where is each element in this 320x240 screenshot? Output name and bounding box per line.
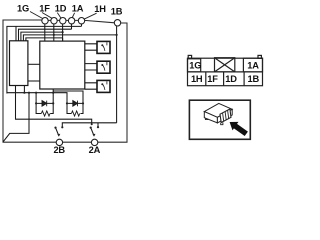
- relay connector foot: [221, 122, 223, 124]
- wire 1G drop into coil box: [44, 23, 46, 42]
- wire 1A drop to bus L2: [71, 23, 73, 29]
- svg-text:2B: 2B: [53, 145, 65, 155]
- bus wire from 1H down left side to node W1: [7, 26, 82, 93]
- label leader 1D: [57, 13, 61, 18]
- wires coil L2 to contact box S3: [85, 83, 97, 89]
- wire riser diode loop1: [35, 93, 37, 104]
- diode D1 loop wires: [36, 103, 53, 113]
- wire 1B drop down right side: [116, 26, 118, 123]
- svg-text:1H: 1H: [191, 74, 203, 84]
- switch SW1 lever arrowhead: [57, 134, 60, 137]
- terminal 1A: [68, 18, 74, 24]
- svg-text:1F: 1F: [39, 4, 50, 14]
- coil box L2: [40, 41, 85, 89]
- svg-text:1D: 1D: [55, 4, 67, 14]
- cell 1G: [188, 59, 201, 72]
- connector tab right: [258, 55, 261, 58]
- wire 1F drop into coil box: [53, 23, 55, 42]
- label leader 1F: [42, 13, 52, 19]
- relay illustration frame: [189, 100, 250, 139]
- terminal circles: [42, 18, 121, 146]
- relay connector block: [220, 109, 231, 123]
- wire coil L1 bottom left drop to line A: [16, 86, 92, 125]
- relay connector pins hatch: [223, 110, 229, 121]
- contact box S3: [97, 80, 110, 92]
- svg-text:1D: 1D: [225, 74, 237, 84]
- contact S3 symbol: [103, 81, 107, 90]
- connector row divider: [188, 71, 263, 73]
- svg-text:1G: 1G: [17, 4, 29, 14]
- pointer arrow: [230, 122, 248, 136]
- wire W1 horizontal: [7, 93, 67, 104]
- resistor R2 zigzag: [71, 111, 79, 116]
- wire between coil boxes lower: [28, 80, 40, 82]
- svg-text:1H: 1H: [94, 4, 106, 14]
- coil box L1: [10, 41, 28, 86]
- bus wire from 1F and 1B into coil L1: [23, 35, 116, 41]
- contact box S1: [97, 41, 110, 53]
- bus wire into coil L1 and coil L2: [26, 38, 63, 41]
- cell 1A: [243, 58, 262, 72]
- terminal 2B: [56, 139, 62, 145]
- terminal 1B: [114, 20, 120, 26]
- label leader 1H: [84, 13, 97, 19]
- terminal 1H: [78, 18, 84, 24]
- relay body right face: [217, 109, 232, 123]
- terminal 1D: [60, 18, 66, 24]
- wire coil L1 bottom right drop to W1: [23, 86, 25, 93]
- wire V52 from coil L2 bottom: [52, 89, 54, 103]
- relay body front face: [204, 112, 217, 123]
- frame top edge through terminals: [42, 20, 115, 22]
- connector cell labels: [189, 60, 259, 84]
- keyed cell X: [215, 58, 235, 72]
- relay foot front left: [205, 118, 207, 120]
- bottom row dividers: [206, 72, 244, 86]
- contact box S2: [97, 61, 110, 73]
- svg-text:1A: 1A: [247, 60, 259, 70]
- wire between coil boxes upper: [28, 63, 40, 65]
- svg-text:1B: 1B: [248, 74, 260, 84]
- svg-text:2A: 2A: [89, 145, 101, 155]
- diode D2: [73, 101, 78, 107]
- label leader 1A: [72, 13, 74, 18]
- bus wire from 1D into coil L1: [21, 32, 63, 41]
- wire 1H drop to bus L1: [81, 23, 83, 26]
- svg-text:1F: 1F: [207, 74, 218, 84]
- switch SW1 lever: [56, 128, 59, 136]
- resistor R1 zigzag: [41, 111, 50, 116]
- connector outline: [188, 58, 263, 85]
- relay body top face: [204, 103, 232, 117]
- diode D2 loop wires: [67, 103, 83, 113]
- terminal 1G: [42, 18, 48, 24]
- labels of top terminals: [17, 4, 123, 155]
- diode D1: [42, 101, 47, 107]
- terminal 1F: [51, 18, 57, 24]
- wire 1D drop to bus L3: [62, 23, 64, 42]
- svg-text:1G: 1G: [189, 60, 201, 70]
- switch SW2 lever arrowhead: [93, 134, 96, 137]
- switch SW2 lever: [91, 128, 94, 136]
- wire line B to switches: [62, 123, 116, 127]
- connector tab left: [188, 55, 191, 58]
- wires coil L2 to contact box S2: [85, 64, 97, 70]
- contact S1 symbol: [103, 42, 107, 51]
- svg-text:1A: 1A: [72, 4, 84, 14]
- bus wire from 1A into coil L1: [19, 29, 72, 41]
- junction dots: [23, 31, 117, 129]
- connector pinout table: [188, 55, 263, 85]
- wires coil L2 to contact box S1: [85, 44, 97, 50]
- svg-text:1B: 1B: [111, 7, 123, 17]
- label leader 1G: [30, 12, 43, 19]
- terminal 2A: [91, 139, 97, 145]
- wire to frame corner diagonal: [3, 93, 29, 142]
- component outer frame: [3, 20, 127, 142]
- wire W2 horizontal: [53, 91, 83, 103]
- contact S2 symbol: [103, 62, 107, 71]
